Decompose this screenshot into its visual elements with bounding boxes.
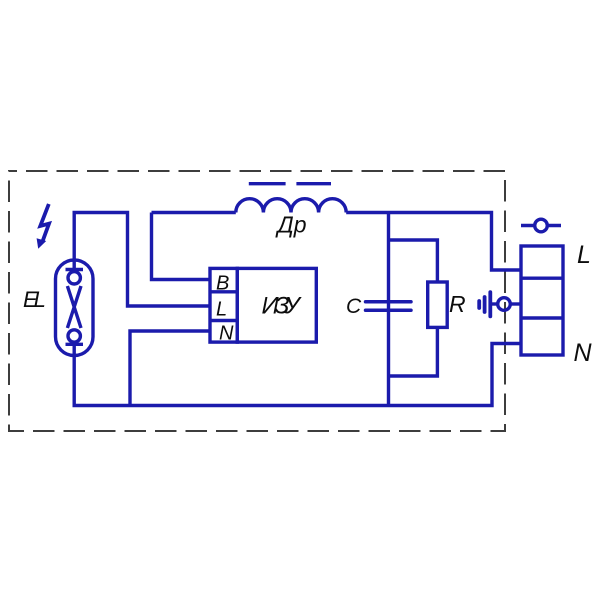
wire: top rail right segment to terminal L xyxy=(346,213,521,271)
wire: capacitor branch vertical xyxy=(387,213,390,406)
lamp EL arc (X) xyxy=(67,286,81,328)
resistor R1 body xyxy=(428,282,448,327)
lamp EL bottom electrode circle xyxy=(68,330,80,342)
lamp EL bottom electrode bar xyxy=(66,343,84,346)
wire: earth circle to terminal block xyxy=(510,302,521,305)
lamp EL envelope (capsule) xyxy=(56,260,94,356)
fuse FU1 (circle with leads) xyxy=(535,219,548,232)
svg-text:EL: EL xyxy=(23,287,45,312)
earth terminal symbol (three bars) xyxy=(479,292,490,316)
wire: resistor branch bottom xyxy=(389,327,438,376)
earth terminal circle xyxy=(498,298,511,311)
svg-text:L: L xyxy=(216,299,227,321)
svg-text:ИЗУ: ИЗУ xyxy=(262,293,303,320)
wire: lamp top loop (EL top to ignitor pin L) xyxy=(74,213,210,307)
ignitor U1 (ИЗУ) terminal column xyxy=(210,268,237,342)
choke L1 (Др) winding xyxy=(236,199,346,213)
svg-text:N: N xyxy=(574,339,593,367)
lamp EL top electrode circle xyxy=(68,272,80,284)
wire: top rail left segment xyxy=(152,211,236,214)
terminal block XT1 dividers xyxy=(521,278,563,318)
wire: resistor branch top xyxy=(389,240,438,282)
choke core (dashed bars above winding) xyxy=(249,182,331,185)
svg-text:Др: Др xyxy=(275,212,307,238)
wire: bottom bus (EL bottom to terminal N) xyxy=(74,344,521,406)
capacitor C1 plates xyxy=(366,302,412,311)
svg-text:C: C xyxy=(346,295,362,318)
ignitor U1 terminal dividers xyxy=(210,292,237,321)
luminaire enclosure (dashed housing border) xyxy=(9,171,505,431)
svg-text:L: L xyxy=(577,241,591,269)
wire: ignitor pin N to bottom bus xyxy=(130,331,210,406)
svg-text:B: B xyxy=(216,273,229,295)
high-voltage lightning arrow xyxy=(37,204,49,249)
earth terminal lead xyxy=(490,302,497,305)
terminal block XT1 xyxy=(521,246,563,355)
wire: ignitor pin B to top rail xyxy=(152,213,211,280)
svg-text:R: R xyxy=(449,291,466,317)
ignitor U1 main box xyxy=(237,268,316,342)
svg-text:N: N xyxy=(219,323,234,345)
lamp EL top electrode bar xyxy=(66,268,84,271)
